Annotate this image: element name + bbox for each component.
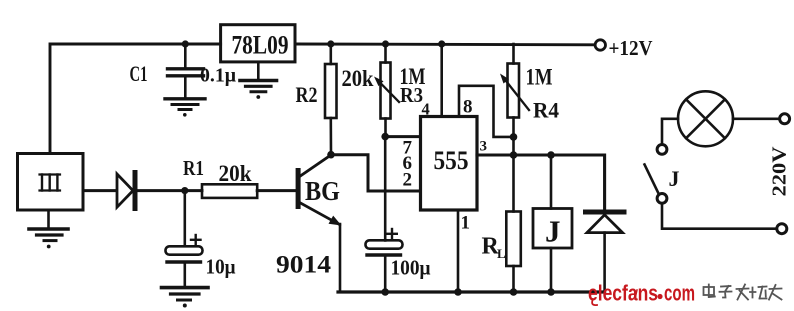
svg-text:8: 8 — [463, 97, 473, 118]
svg-text:20k: 20k — [342, 66, 374, 91]
diode (detector) — [117, 173, 135, 209]
ground under 10u — [162, 288, 209, 308]
wire RL to bottom rail — [512, 266, 515, 292]
svg-text:R4: R4 — [533, 98, 559, 123]
watermark chinese characters — [704, 285, 782, 300]
potentiometer R3 — [374, 44, 399, 137]
wire diode to node — [138, 189, 203, 192]
flyback diode — [586, 212, 625, 292]
svg-text:78L09: 78L09 — [232, 31, 289, 60]
ground under 78L09 — [240, 62, 277, 99]
pin 8 wire — [459, 86, 514, 137]
pin 4 wire — [440, 44, 443, 117]
svg-text:C1: C1 — [130, 61, 148, 86]
node pin1 at rail — [454, 288, 462, 296]
wire lamp to 220V top — [733, 118, 779, 121]
node on rail at R2 — [327, 40, 334, 47]
wire R4 node to RL — [512, 155, 515, 212]
+12V terminal — [595, 40, 605, 50]
svg-text:2: 2 — [403, 170, 413, 191]
wire collector node to 555 pin2 — [331, 155, 421, 191]
timer IC 555 — [421, 117, 478, 211]
wire R3 node down to 100u — [384, 137, 387, 241]
wire top +12V rail right segment — [295, 43, 595, 47]
wire lamp to switch top terminal — [662, 119, 678, 145]
svg-text:555: 555 — [434, 146, 469, 175]
transistor BG (9014) — [296, 155, 342, 292]
capacitor 100u — [366, 229, 403, 292]
svg-text:R2: R2 — [296, 82, 318, 107]
pin 1 wire — [457, 210, 460, 292]
node relay at rail — [547, 288, 555, 296]
svg-text:0.1μ: 0.1μ — [200, 65, 237, 87]
capacitor C1 — [168, 44, 204, 97]
wire R3 node to 555 pin7 — [385, 135, 420, 138]
IR receiver module III — [18, 154, 84, 211]
node on rail at R3 — [382, 40, 389, 47]
svg-text:L: L — [497, 246, 506, 261]
node A (R1 / 10u junction) — [181, 187, 188, 194]
regulator 78L09 — [221, 25, 295, 62]
svg-text:+12V: +12V — [609, 36, 653, 60]
svg-text:com: com — [664, 281, 695, 306]
svg-text:20k: 20k — [219, 161, 252, 186]
switch bottom terminal — [657, 194, 667, 204]
node pin8 to R4 bottom — [510, 133, 518, 141]
svg-text:elecfans: elecfans — [588, 281, 658, 306]
wire switch to 220V bottom — [662, 203, 776, 228]
node on rail at pin4 — [438, 40, 445, 47]
resistor R1 — [202, 184, 257, 198]
svg-text:4: 4 — [422, 100, 430, 119]
svg-text:J: J — [669, 166, 680, 191]
potentiometer R4 — [500, 44, 529, 155]
node R3 bottom junction — [381, 133, 389, 141]
node pin3 at RL — [510, 151, 518, 159]
wire R1 to base — [257, 189, 296, 192]
ground under C1 — [165, 99, 205, 117]
svg-text:1: 1 — [461, 213, 471, 234]
resistor R2 — [325, 44, 337, 155]
node 100u at rail — [381, 288, 389, 296]
switch top terminal — [657, 145, 667, 155]
node collector junction — [327, 151, 335, 159]
wire top +12V rail left segment — [50, 44, 221, 154]
ground under III module — [29, 210, 68, 248]
node RL at rail — [510, 288, 518, 296]
capacitor 10u — [166, 191, 203, 286]
svg-text:BG: BG — [305, 176, 340, 206]
watermark elecfans.com — [588, 281, 695, 306]
svg-text:100μ: 100μ — [391, 256, 431, 280]
svg-text:1M: 1M — [526, 65, 553, 90]
lamp — [678, 91, 733, 146]
svg-text:R1: R1 — [183, 156, 204, 180]
node pin3 at relay J — [547, 151, 555, 159]
resistor RL — [506, 212, 521, 267]
bottom common rail — [338, 290, 605, 293]
220V top terminal — [780, 114, 790, 124]
svg-text:220V: 220V — [769, 146, 791, 197]
220V bottom terminal — [777, 224, 787, 234]
svg-text:10μ: 10μ — [206, 255, 236, 279]
svg-text:R3: R3 — [400, 83, 423, 107]
node on rail at C1 — [182, 40, 189, 47]
svg-text:3: 3 — [480, 139, 488, 155]
wire 555 pin3 output — [477, 155, 605, 210]
wire III output — [83, 189, 117, 192]
relay coil J — [533, 155, 572, 292]
svg-text:J: J — [545, 214, 561, 249]
switch J blade — [645, 165, 659, 195]
svg-text:9014: 9014 — [276, 252, 332, 279]
